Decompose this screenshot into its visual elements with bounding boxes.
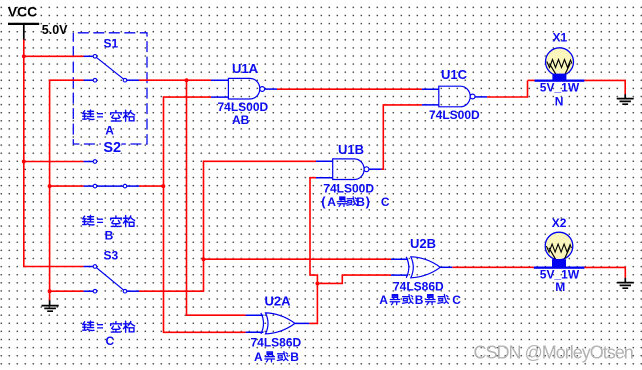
svg-text:VCC: VCC [8, 3, 38, 19]
svg-text:N: N [555, 94, 564, 108]
svg-text:74LS86D: 74LS86D [251, 336, 302, 350]
svg-text:X2: X2 [552, 216, 567, 230]
svg-text:S3: S3 [104, 249, 119, 263]
svg-text:): ) [366, 194, 370, 209]
svg-text:AB: AB [232, 113, 250, 127]
svg-text:CSDN @MorleyOtsen: CSDN @MorleyOtsen [474, 342, 633, 362]
svg-text:5V_1W: 5V_1W [540, 80, 580, 94]
svg-text:5.0V: 5.0V [42, 23, 68, 37]
svg-text:S2: S2 [103, 140, 121, 156]
svg-text:B: B [356, 195, 365, 209]
svg-text:A: A [379, 293, 388, 307]
svg-text:S1: S1 [104, 36, 119, 50]
svg-text:A: A [327, 195, 336, 209]
svg-text:U1B: U1B [338, 142, 364, 157]
svg-text:U2A: U2A [265, 293, 292, 308]
svg-text:A: A [254, 350, 263, 364]
svg-text:C: C [452, 293, 461, 307]
svg-text:B: B [415, 293, 424, 307]
svg-text:(: ( [321, 194, 326, 209]
svg-text:U2B: U2B [410, 236, 436, 251]
svg-text:X1: X1 [553, 31, 568, 45]
svg-text:B: B [105, 228, 114, 242]
svg-text:74LS00D: 74LS00D [218, 100, 269, 114]
svg-text:U1C: U1C [441, 67, 468, 82]
svg-text:=: = [97, 214, 104, 228]
svg-text:M: M [555, 280, 565, 294]
svg-text:=: = [97, 320, 104, 334]
svg-text:C: C [381, 195, 390, 209]
svg-text:=: = [97, 109, 104, 123]
svg-text:C: C [106, 334, 115, 348]
svg-text:A: A [105, 123, 114, 137]
svg-text:U1A: U1A [232, 61, 259, 76]
svg-text:74LS86D: 74LS86D [393, 280, 444, 294]
svg-text:74LS00D: 74LS00D [429, 108, 480, 122]
svg-text:B: B [290, 350, 299, 364]
